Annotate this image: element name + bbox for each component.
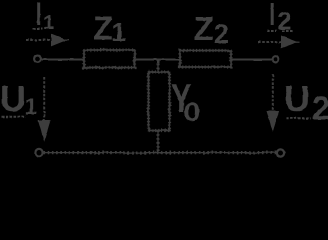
terminal top-left [34,56,41,63]
label I2 [267,3,294,36]
svg-text:2: 2 [214,19,229,49]
terminal bottom-right [277,149,284,156]
bottom wire [44,152,277,154]
svg-text:0: 0 [184,97,201,127]
voltage U1 arrow [39,77,50,140]
wire top-left segment [41,59,84,61]
label Z2 [194,10,230,49]
wire Y0 to bottom [157,131,159,153]
svg-text:Z: Z [194,10,214,47]
svg-text:U: U [0,78,26,119]
terminal top-right [273,56,279,62]
current I2 arrow [258,36,300,47]
svg-text:U: U [284,78,310,119]
voltage U2 arrow [267,74,278,130]
label U1 [0,78,37,119]
label I1 [33,3,54,35]
svg-text:2: 2 [312,90,328,127]
current I1 arrow [26,35,69,46]
wire between Z1 and Z2 [135,59,181,61]
svg-text:1: 1 [112,17,126,47]
label Y0 [171,75,200,127]
svg-text:1: 1 [25,94,37,119]
label U2 [284,78,328,127]
resistor Z1 box [84,50,135,68]
svg-text:1: 1 [43,12,54,34]
node junction wire down [157,59,160,64]
resistor Z2 box [180,51,231,68]
svg-text:Z: Z [93,10,113,47]
terminal bottom-left [35,149,42,156]
label Z1 [93,10,126,48]
admittance Y0 box [149,72,170,131]
wire top-right segment [231,59,273,61]
